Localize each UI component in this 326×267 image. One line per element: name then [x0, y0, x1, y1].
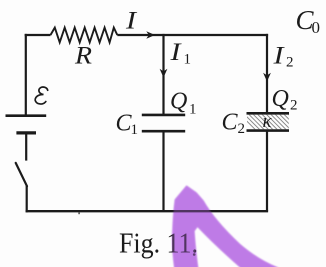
svg-text:1: 1 [131, 122, 139, 138]
switch S (open blade) [16, 163, 27, 186]
scan speck under bottom rail [78, 212, 80, 214]
wire: switch lower contact down to bottom rail [26, 186, 28, 213]
wire: bottom rail [26, 210, 269, 212]
svg-text:R: R [74, 43, 92, 70]
annotation: purple highlighter arrow [172, 186, 279, 267]
wire: right branch upper vertical from top-right corner to C2 [266, 34, 268, 113]
scan speck near caption [193, 253, 196, 256]
label Q1 [170, 89, 197, 118]
capacitor C2 top plate [247, 112, 290, 115]
wire: top rail right segment to top-right corner [163, 34, 268, 36]
svg-text:1: 1 [189, 102, 197, 118]
resistor R [51, 28, 118, 43]
wire: battery negative plate down to switch contact [25, 133, 27, 161]
svg-text:I: I [125, 8, 138, 35]
svg-text:Q: Q [170, 89, 187, 115]
current arrow I2 [263, 73, 271, 82]
svg-text:2: 2 [238, 121, 246, 137]
wire: top rail from resistor to junction [117, 34, 163, 36]
caption Fig. 11. [119, 229, 198, 260]
node: top junction of middle branch [162, 34, 164, 36]
label Q2 [272, 86, 298, 114]
capacitor C2 dielectric hatch (kappa slab) [239, 114, 304, 131]
svg-text:0: 0 [312, 18, 321, 37]
svg-text:Q: Q [272, 86, 289, 112]
svg-text:2: 2 [290, 98, 298, 114]
current arrow I1 [160, 69, 168, 78]
wire: middle branch lower vertical from C1 to bottom rail [162, 131, 164, 211]
svg-text:C: C [222, 110, 239, 136]
capacitor C1 top plate [142, 114, 185, 117]
label R [74, 43, 92, 70]
battery E (EMF source), long positive plate [6, 114, 47, 117]
label I [125, 8, 138, 35]
wire: top rail left segment into resistor [25, 34, 51, 36]
label EMF script E [35, 86, 49, 105]
label C2 [222, 110, 246, 137]
svg-text:κ: κ [263, 111, 273, 132]
label kappa (dielectric constant) [263, 111, 273, 132]
label C1 [116, 111, 139, 138]
label I1 [169, 39, 191, 68]
annotation: purple arrow lighten pass [172, 186, 279, 267]
capacitor C2 bottom plate [247, 129, 290, 132]
wire: middle branch upper vertical from junction to C1 [162, 35, 164, 115]
capacitor C1 bottom plate [142, 130, 185, 133]
svg-text:I: I [272, 43, 285, 70]
label I2 [272, 43, 293, 71]
svg-text:I: I [169, 39, 182, 66]
label C0 [296, 5, 321, 37]
svg-text:1: 1 [184, 52, 192, 68]
wire: left vertical from top rail down to battery [25, 34, 27, 115]
svg-text:2: 2 [286, 55, 294, 71]
wire: right branch lower vertical from C2 to bottom rail [266, 131, 268, 212]
battery E, short negative plate [16, 131, 36, 134]
current arrow I [146, 31, 155, 39]
